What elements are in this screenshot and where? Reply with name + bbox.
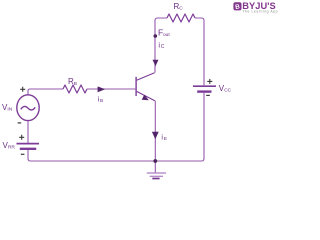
label iE [161, 134, 167, 142]
resistor RC [167, 14, 195, 22]
wire VIN plus terminal to RB [28, 89, 63, 96]
label RC [174, 2, 184, 12]
node Fout [154, 34, 158, 38]
label Fout [158, 27, 170, 38]
svg-text:The Learning App: The Learning App [243, 10, 279, 14]
plus sign VCC [207, 79, 212, 84]
minus sign VCC [206, 94, 210, 96]
label RB [68, 77, 77, 87]
label VCC [219, 84, 232, 94]
plus sign VRR [19, 135, 24, 140]
svg-text:B: B [74, 81, 77, 87]
svg-text:B: B [100, 98, 103, 104]
label VRR [3, 141, 16, 151]
minus sign VRR [21, 153, 25, 155]
current arrow iC [153, 60, 159, 66]
wire VIN bottom to VRR battery [27, 121, 29, 143]
battery VCC [193, 86, 216, 91]
minus sign VIN [18, 122, 22, 124]
label VIN [2, 103, 13, 113]
svg-text:E: E [164, 136, 167, 142]
current arrow iE [152, 132, 159, 140]
resistor RB [63, 85, 87, 93]
current arrow iB [98, 86, 106, 92]
svg-text:IN: IN [7, 107, 12, 113]
node ground junction [153, 159, 157, 163]
label iC [158, 41, 164, 51]
wire RB to transistor base [87, 88, 135, 90]
svg-text:C: C [179, 6, 183, 12]
svg-text:out: out [163, 32, 170, 38]
label iB [98, 97, 104, 105]
battery VRR [17, 144, 40, 149]
logo BYJU'S [233, 1, 278, 13]
ac source VIN [17, 95, 39, 121]
wire VCC down, bottom wire to VRR [28, 93, 204, 161]
svg-text:C: C [161, 44, 165, 50]
plus sign VIN [20, 87, 25, 92]
svg-text:RR: RR [8, 145, 15, 151]
svg-text:CC: CC [224, 88, 231, 94]
ground [147, 173, 166, 179]
wire collector up and top-left corner to RC [155, 18, 167, 73]
wire RC to right rail down to VCC [195, 18, 204, 85]
transistor Q1 [136, 73, 155, 101]
wire emitter rail down to ground [154, 101, 156, 173]
